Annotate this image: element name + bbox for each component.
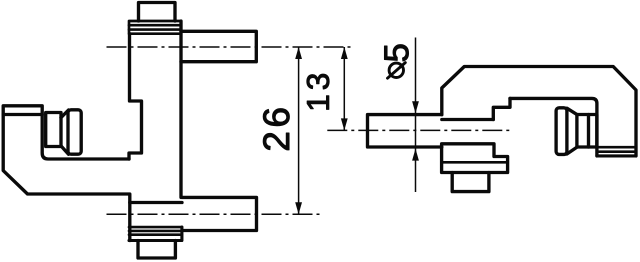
left view: bottom collar bottom and right edge — [129, 227, 182, 240]
right view: frame outer outline — [442, 67, 636, 156]
left view: top tab — [139, 3, 176, 22]
dimension text 26 — [263, 109, 289, 150]
right view: inner ceiling and right wall inner face — [510, 98, 597, 155]
left view: frame arm outline — [3, 106, 130, 241]
right view: opening floor ledge line — [442, 118, 494, 121]
dimension text 13 — [307, 74, 329, 109]
right view: inner step left — [493, 98, 510, 119]
left view: top collar — [129, 21, 181, 34]
left view: clamp cone — [61, 110, 69, 154]
right view: left foot collar line — [442, 161, 508, 164]
left view: body left edge with step and notch — [129, 34, 142, 159]
left view: arm seat lip line — [3, 113, 42, 116]
dimension text ø5: digit 5 — [384, 45, 408, 61]
left view: clamp washer — [46, 113, 61, 147]
dimension text ø5: diameter symbol circle — [389, 63, 403, 77]
center line axis3 (pin axis, right view) — [327, 129, 510, 131]
left view: body right edge — [179, 21, 182, 197]
dimension line 26 — [298, 47, 300, 214]
dimension text ø5: diameter symbol slash — [388, 63, 406, 79]
left view: bottom collar lines — [129, 227, 182, 235]
center line axis1 (top pin axis, left view) — [107, 46, 355, 48]
left view: bottom pin cylinder — [182, 197, 257, 230]
dimension 26 arrowheads — [295, 47, 302, 214]
right view: boss washer-neck separator — [587, 115, 590, 148]
right view: pin cylinder — [368, 115, 442, 147]
right view: right foot bottom edge — [597, 154, 636, 157]
right view: boss cone — [567, 108, 577, 154]
dimension 13 arrowheads — [341, 47, 348, 130]
dimension line ø5 — [415, 38, 417, 193]
left view: clamp head — [68, 110, 81, 154]
right view: boss head — [556, 108, 567, 155]
dimension line 13 — [343, 47, 345, 130]
left view: bottom shoulder step line — [130, 201, 182, 204]
right view: left foot outline — [442, 144, 508, 173]
left view: bottom tab — [138, 241, 175, 259]
right view: bottom tab — [452, 173, 489, 192]
dimension ø5 arrowheads — [412, 101, 419, 160]
center line axis2 (bottom pin axis, left view) — [107, 213, 321, 215]
left view: top pin cylinder — [181, 31, 256, 61]
left view: top collar knurl lines — [129, 25, 181, 29]
right view: boss washer and neck — [577, 115, 597, 148]
right view: right foot collar lines — [597, 147, 636, 152]
